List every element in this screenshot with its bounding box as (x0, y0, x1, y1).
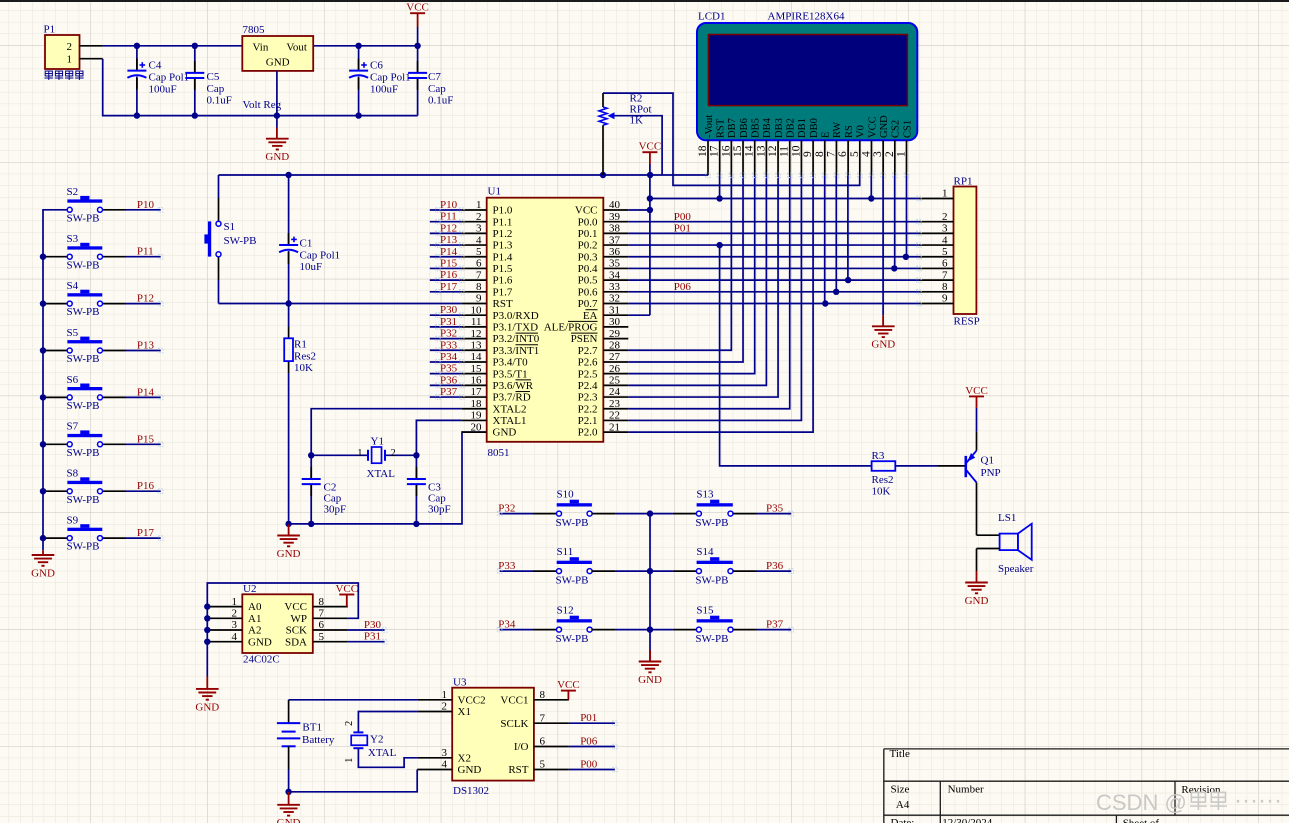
svg-text:P34: P34 (440, 351, 458, 363)
wire BT1 minus to gnd row (288, 746, 290, 769)
svg-text:P32: P32 (498, 503, 515, 515)
svg-text:4: 4 (232, 631, 238, 643)
U3 pin 5 RST (534, 769, 569, 771)
svg-text:VCC: VCC (575, 205, 598, 217)
svg-text:1: 1 (895, 151, 907, 157)
svg-text:12: 12 (767, 145, 779, 157)
svg-text:2: 2 (476, 211, 482, 223)
U1 pin 28 P2.7 (603, 349, 628, 351)
wire U1 pin 1 (430, 209, 462, 211)
svg-text:P3.5/T1: P3.5/T1 (493, 368, 528, 380)
svg-text:P31: P31 (364, 631, 381, 643)
svg-text:13: 13 (755, 145, 767, 157)
wire S11 to S14 (592, 570, 616, 572)
svg-text:1: 1 (442, 689, 448, 701)
svg-text:CSDN @: CSDN @ (1096, 790, 1187, 815)
svg-text:P0.7: P0.7 (578, 298, 598, 310)
capacitor C3 (415, 455, 417, 479)
U1 pin 29 PSEN (603, 338, 628, 340)
wire P0.3 row (628, 256, 919, 258)
svg-text:RW: RW (832, 122, 843, 138)
svg-text:11: 11 (779, 146, 791, 157)
svg-text:DB0: DB0 (809, 118, 820, 138)
wire S12 to S15 (592, 629, 616, 631)
wire P0.2 row (628, 244, 919, 246)
svg-text:SCLK: SCLK (500, 718, 528, 730)
svg-text:Date:: Date: (891, 817, 915, 823)
wire U3 GND down (289, 770, 418, 792)
svg-text:14: 14 (471, 351, 483, 363)
svg-text:7805: 7805 (243, 24, 266, 36)
svg-text:34: 34 (609, 269, 621, 281)
svg-text:P0.6: P0.6 (578, 286, 598, 298)
svg-text:RST: RST (493, 298, 513, 310)
svg-text:4: 4 (860, 151, 872, 157)
svg-text:Speaker: Speaker (998, 563, 1034, 575)
wire Vout to VCC (313, 45, 417, 47)
svg-text:35: 35 (609, 258, 621, 270)
svg-text:U1: U1 (488, 186, 501, 198)
svg-text:1K: 1K (630, 115, 644, 127)
svg-text:15: 15 (732, 145, 744, 157)
svg-text:1: 1 (344, 758, 355, 763)
U1 pin 24 P2.3 (603, 396, 628, 398)
svg-text:P36: P36 (440, 374, 458, 386)
junction dots top rails (134, 43, 140, 49)
RP1 pin 8 (919, 291, 954, 293)
svg-text:30pF: 30pF (324, 504, 347, 516)
svg-text:P0.0: P0.0 (578, 216, 598, 228)
svg-text:DS1302: DS1302 (453, 785, 489, 797)
switch S1 (218, 175, 220, 198)
svg-text:P1.3: P1.3 (493, 240, 513, 252)
wire RST net (219, 303, 462, 305)
connector P1 (45, 35, 80, 69)
svg-text:SDA: SDA (285, 636, 307, 648)
wire RP1 pin1 row (650, 198, 919, 200)
svg-text:18: 18 (471, 398, 483, 410)
svg-text:1: 1 (357, 448, 362, 459)
svg-text:5: 5 (319, 631, 325, 643)
svg-text:P35: P35 (440, 363, 458, 375)
svg-text:25: 25 (609, 375, 621, 387)
svg-text:SW-PB: SW-PB (556, 574, 589, 586)
svg-text:14: 14 (744, 145, 756, 157)
wire SCK P30 (348, 629, 385, 631)
svg-text:C5: C5 (207, 71, 220, 83)
svg-text:8: 8 (942, 281, 948, 293)
wire I/O P06 (569, 746, 615, 748)
LCD pin 16 DB7 (730, 140, 732, 175)
wire U1 pin 16 (430, 384, 462, 386)
RP1 pin 1 (919, 198, 954, 200)
svg-text:7: 7 (825, 151, 837, 157)
wire U1 pin 14 (430, 361, 462, 363)
svg-text:P10: P10 (137, 199, 155, 211)
svg-text:DB6: DB6 (739, 118, 750, 138)
U1 pin 35 P0.4 (603, 267, 628, 269)
wire LCD E to P0.7 (824, 175, 826, 303)
svg-text:GND: GND (266, 57, 290, 69)
U3 pin 7 SCLK (534, 722, 569, 724)
P1 pin 2 (80, 45, 103, 47)
wire P2.7 to DB7 (628, 175, 731, 350)
svg-text:2: 2 (67, 41, 73, 53)
svg-text:GND: GND (195, 701, 219, 713)
wire P0.0 row (628, 221, 919, 223)
wire EA to VCC (628, 314, 650, 316)
switch S8 (43, 490, 67, 492)
svg-text:SW-PB: SW-PB (695, 517, 728, 529)
svg-text:Sheet of: Sheet of (1123, 817, 1160, 823)
svg-text:P3.0/RXD: P3.0/RXD (493, 310, 539, 322)
svg-text:S7: S7 (67, 421, 79, 433)
7805 GND stem (276, 71, 278, 128)
svg-text:Q1: Q1 (981, 455, 994, 467)
switch S15 (697, 619, 733, 622)
svg-text:SW-PB: SW-PB (67, 400, 100, 412)
svg-text:P31: P31 (440, 316, 457, 328)
svg-text:SW-PB: SW-PB (556, 633, 589, 645)
svg-text:P0.2: P0.2 (578, 240, 598, 252)
svg-text:30pF: 30pF (428, 504, 451, 516)
svg-text:2: 2 (884, 151, 896, 157)
capacitor C6 (358, 46, 360, 71)
wire U1 pin 13 (430, 349, 462, 351)
svg-text:37: 37 (609, 234, 621, 246)
LCD pin 2 CS2 (894, 140, 896, 175)
U1 pin 23 P2.2 (603, 408, 628, 410)
U3 pin 4 GND (417, 769, 452, 771)
svg-text:P1: P1 (44, 24, 56, 36)
junctions U2 ground (204, 603, 210, 609)
svg-text:P06: P06 (580, 736, 598, 748)
svg-text:2: 2 (942, 211, 948, 223)
svg-text:Size: Size (891, 783, 910, 795)
U3 pin 8 VCC1 (534, 699, 569, 701)
svg-text:1: 1 (476, 199, 482, 211)
svg-text:P2.5: P2.5 (578, 368, 598, 380)
wire switch ground bus (43, 210, 70, 551)
wire P2.3 to DB3 (628, 175, 778, 397)
svg-text:24C02C: 24C02C (243, 654, 280, 666)
U2 pin 2 A1 (207, 617, 242, 619)
svg-text:30: 30 (609, 316, 621, 328)
svg-text:P3.2/INT0: P3.2/INT0 (493, 333, 540, 345)
switch S7 (43, 443, 67, 445)
svg-text:C7: C7 (428, 71, 441, 83)
svg-text:11: 11 (471, 316, 482, 328)
svg-text:P17: P17 (440, 281, 458, 293)
wire P2.1 to DB1 (628, 175, 801, 420)
svg-text:R3: R3 (872, 450, 885, 462)
svg-text:8: 8 (540, 689, 546, 701)
U1 pin 32 P0.7 (603, 303, 628, 305)
svg-text:27: 27 (609, 351, 621, 363)
svg-text:P12: P12 (440, 222, 457, 234)
svg-text:8051: 8051 (488, 447, 510, 459)
svg-text:3: 3 (232, 619, 238, 631)
switch S13 (697, 503, 733, 506)
svg-text:A1: A1 (248, 613, 261, 625)
svg-text:26: 26 (609, 363, 621, 375)
svg-text:6: 6 (942, 258, 948, 270)
svg-text:S12: S12 (557, 604, 574, 616)
svg-text:2: 2 (232, 608, 238, 620)
svg-text:GND: GND (265, 151, 289, 163)
svg-text:3: 3 (476, 223, 482, 235)
wire S13 right (733, 513, 757, 515)
svg-text:P33: P33 (440, 339, 458, 351)
U1 pin 25 P2.4 (603, 384, 628, 386)
LCD pin 10 DB1 (800, 140, 802, 175)
LCD pin 18 -Vout (707, 140, 709, 175)
resistor R3 (872, 461, 896, 471)
svg-text:SW-PB: SW-PB (224, 235, 257, 247)
wire pin40 to VCC (628, 209, 650, 211)
LCD pin 7 RW (835, 140, 837, 175)
svg-text:GND: GND (638, 674, 662, 686)
svg-text:6: 6 (540, 736, 546, 748)
svg-text:GND: GND (965, 595, 989, 607)
sheet top border (0, 0, 1289, 2)
U1 pin 30 ALE/PROG (603, 326, 628, 328)
battery BT1 (288, 700, 290, 723)
U1 pin 15 P3.5/T1 (462, 373, 487, 375)
svg-text:40: 40 (609, 199, 621, 211)
wire LCD RS to P0.5 (847, 175, 849, 280)
U1 pin 33 P0.6 (603, 291, 628, 293)
switch S14 (697, 561, 733, 564)
svg-text:1: 1 (942, 188, 948, 200)
svg-text:S14: S14 (696, 546, 714, 558)
U1 pin 34 P0.5 (603, 279, 628, 281)
svg-text:P1.4: P1.4 (493, 251, 513, 263)
svg-text:P00: P00 (580, 759, 598, 771)
RP1 pin 4 (919, 244, 954, 246)
svg-text:VCC1: VCC1 (500, 694, 528, 706)
wire VCC rail (RST circuit to LCD -Vout) (219, 174, 709, 176)
svg-text:5: 5 (540, 759, 546, 771)
resistor pack RP1 (954, 187, 977, 315)
svg-text:18: 18 (697, 145, 709, 157)
svg-text:38: 38 (609, 223, 621, 235)
U2 pin 8 VCC (313, 606, 348, 608)
svg-text:21: 21 (609, 421, 620, 433)
svg-text:Res2: Res2 (872, 474, 894, 486)
ground under R1 (285, 521, 291, 527)
svg-text:GND: GND (277, 817, 301, 823)
U1 pin 20 GND (462, 431, 487, 433)
wire U1 pin 10 (430, 314, 462, 316)
svg-text:GND: GND (248, 636, 272, 648)
svg-text:P16: P16 (440, 269, 458, 281)
wire P2.4 to DB4 (628, 175, 766, 385)
RP1 pin 2 (919, 221, 954, 223)
svg-text:P15: P15 (137, 433, 155, 445)
svg-text:SW-PB: SW-PB (67, 306, 100, 318)
svg-text:P0.5: P0.5 (578, 275, 598, 287)
switch S2 (103, 209, 127, 211)
wire LCD GND down (882, 175, 884, 315)
svg-text:CS1: CS1 (902, 120, 913, 138)
wire XTAL1 net (416, 420, 461, 455)
wire U1 pin 15 (430, 373, 462, 375)
svg-text:P2.7: P2.7 (578, 345, 598, 357)
svg-text:4: 4 (442, 759, 448, 771)
svg-text:20: 20 (471, 421, 483, 433)
svg-text:DB4: DB4 (762, 117, 773, 138)
LCD1 AMPIRE128X64 (697, 23, 917, 140)
U3 pin 6 I/O (534, 746, 569, 748)
svg-text:24: 24 (609, 386, 621, 398)
svg-text:22: 22 (609, 410, 620, 422)
svg-text:X1: X1 (458, 706, 471, 718)
svg-text:0.1uF: 0.1uF (428, 95, 453, 107)
svg-text:P10: P10 (440, 199, 458, 211)
U1 pin 18 XTAL2 (462, 408, 487, 410)
wire U1 pin 7 (430, 279, 462, 281)
IC U1 8051 microcontroller (487, 198, 604, 442)
wire P2.6 to DB6 (628, 175, 743, 362)
LCD pin 9 DB0 (812, 140, 814, 175)
svg-text:8: 8 (476, 281, 482, 293)
svg-text:9: 9 (942, 293, 948, 305)
wire U1 pin 11 (430, 326, 462, 328)
wire R2 wiper (615, 116, 663, 175)
ground under LCD GND (882, 315, 884, 326)
wire RST P00 (569, 769, 615, 771)
svg-text:······: ······ (1234, 787, 1282, 814)
svg-text:Title: Title (890, 748, 911, 760)
U1 pin 11 P3.1/TXD (462, 326, 487, 328)
svg-text:S8: S8 (67, 468, 79, 480)
svg-text:7: 7 (540, 712, 546, 724)
svg-text:2: 2 (344, 721, 355, 726)
U1 pin 21 P2.0 (603, 431, 628, 433)
svg-text:P30: P30 (440, 304, 458, 316)
wire GND row (crystal) (289, 432, 487, 524)
svg-text:RESP: RESP (954, 316, 980, 328)
wire SCLK P01 (569, 722, 615, 724)
wire S15 right (733, 629, 757, 631)
U2 pin 1 A0 (207, 606, 242, 608)
voltage regulator 7805 (242, 36, 313, 71)
U1 pin 2 P1.1 (462, 221, 487, 223)
svg-text:1: 1 (232, 596, 238, 608)
svg-text:U2: U2 (243, 583, 256, 595)
RP1 pin 6 (919, 267, 954, 269)
svg-text:Cap Pol1: Cap Pol1 (149, 72, 190, 84)
switch S6 (43, 396, 67, 398)
svg-text:Y2: Y2 (370, 734, 383, 746)
wire key ground vertical (649, 514, 651, 662)
U1 pin 8 P1.7 (462, 291, 487, 293)
svg-text:XTAL: XTAL (368, 747, 397, 759)
svg-text:SW-PB: SW-PB (67, 541, 100, 553)
RP1 pin 3 (919, 232, 954, 234)
U1 pin 19 XTAL1 (462, 419, 487, 421)
svg-text:10uF: 10uF (300, 261, 323, 273)
svg-text:RST: RST (715, 118, 726, 138)
wire LCD RW to P0.6 (835, 175, 837, 291)
svg-text:-Vout: -Vout (704, 115, 715, 138)
wire U1 pin 8 (430, 291, 462, 293)
U1 pin 12 P3.2/INT0 (462, 338, 487, 340)
wire LCD VCC down (870, 175, 872, 198)
wire U1 pin 12 (430, 338, 462, 340)
wire Q1 collector to LS1 (976, 483, 978, 536)
svg-text:VCC: VCC (284, 601, 307, 613)
svg-text:S2: S2 (67, 186, 79, 198)
svg-text:P1.7: P1.7 (493, 286, 513, 298)
ground under switch bus (42, 550, 44, 555)
svg-text:GND: GND (458, 764, 482, 776)
svg-text:P16: P16 (137, 480, 155, 492)
svg-text:5: 5 (476, 246, 482, 258)
svg-text:ALE/PROG: ALE/PROG (544, 322, 598, 334)
svg-text:Vout: Vout (286, 42, 307, 54)
wire S10 to S13 (592, 513, 616, 515)
switch S12 (500, 629, 533, 631)
svg-text:SW-PB: SW-PB (695, 574, 728, 586)
svg-text:PSEN: PSEN (571, 333, 598, 345)
svg-text:P2.0: P2.0 (578, 427, 598, 439)
svg-text:P00: P00 (674, 211, 692, 223)
svg-text:RP1: RP1 (954, 175, 973, 187)
svg-text:10: 10 (471, 304, 483, 316)
svg-text:P3.6/WR: P3.6/WR (493, 380, 534, 392)
svg-text:A2: A2 (248, 625, 261, 637)
svg-text:S13: S13 (696, 488, 714, 500)
wire P0.1 row (628, 232, 919, 234)
svg-text:I/O: I/O (514, 741, 529, 753)
ground under BT1 (288, 792, 290, 805)
crystal Y1 (311, 454, 368, 456)
svg-text:Number: Number (948, 783, 984, 795)
switch S9 (43, 537, 67, 539)
svg-text:32: 32 (609, 293, 620, 305)
svg-text:CS2: CS2 (891, 120, 902, 138)
svg-text:P1.2: P1.2 (493, 228, 513, 240)
junctions key column (647, 510, 653, 516)
junctions P0 rows (716, 242, 722, 248)
svg-text:GND: GND (879, 115, 890, 138)
svg-text:7: 7 (476, 269, 482, 281)
svg-text:10: 10 (790, 145, 802, 157)
svg-text:P30: P30 (364, 619, 382, 631)
LCD pin 3 GND (882, 140, 884, 175)
U3 pin 1 VCC2 (417, 699, 452, 701)
svg-text:P14: P14 (137, 386, 155, 398)
RP1 pin 7 (919, 279, 954, 281)
svg-text:P01: P01 (674, 223, 691, 235)
svg-text:A0: A0 (248, 601, 262, 613)
svg-text:P34: P34 (498, 619, 516, 631)
wire U1 pin 2 (430, 221, 462, 223)
wire VCC vertical (649, 164, 651, 315)
U1 pin 22 P2.1 (603, 419, 628, 421)
svg-text:P2.1: P2.1 (578, 415, 598, 427)
LCD pin 17 RST (719, 140, 721, 175)
svg-text:Cap: Cap (207, 83, 225, 95)
svg-text:P2.6: P2.6 (578, 357, 598, 369)
svg-text:5: 5 (849, 151, 861, 157)
svg-text:8: 8 (319, 596, 325, 608)
svg-text:2: 2 (442, 701, 448, 713)
svg-text:P2.3: P2.3 (578, 392, 598, 404)
svg-text:C6: C6 (370, 60, 383, 72)
